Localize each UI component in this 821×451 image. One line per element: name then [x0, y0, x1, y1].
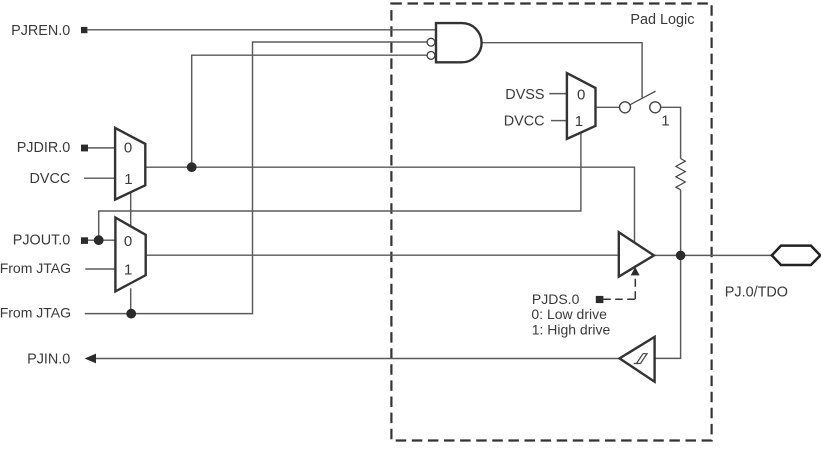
wire mux U2 output to output buffer input — [146, 254, 619, 256]
svg-text:0: 0 — [124, 233, 132, 250]
output buffer U5 — [619, 232, 654, 276]
wire DVCC to mux U1 input 1 — [84, 177, 115, 179]
svg-text:DVCC: DVCC — [504, 113, 545, 129]
AND gate U4 — [436, 23, 482, 62]
PJIN.0 arrowhead — [85, 354, 96, 364]
wire JTAG select node C to mux U2 select — [130, 288, 132, 313]
terminal square PJREN.0 — [81, 27, 87, 33]
node D junction dot (pad net) — [676, 251, 686, 261]
svg-text:1: 1 — [575, 113, 583, 130]
svg-text:Pad Logic: Pad Logic — [630, 12, 694, 28]
hysteresis symbol inside U6 — [634, 354, 648, 364]
wire resistor R1 bottom through pad node D down to Schmitt input — [655, 190, 681, 359]
svg-text:PJIN.0: PJIN.0 — [27, 352, 70, 368]
pad pin PJ.0/TDO hexagon — [772, 246, 821, 265]
svg-text:From JTAG: From JTAG — [0, 260, 71, 276]
svg-text:1: 1 — [124, 262, 132, 279]
wire mux U2 select through to mux U1 select — [130, 193, 132, 226]
wire DVCC to mux U3 input 1 — [551, 120, 567, 122]
wire node A up to AND input C bubble — [192, 55, 428, 167]
inverter bubble on AND input C — [427, 52, 435, 60]
wire mux U3 output to switch contact — [596, 106, 620, 108]
wire PJREN.0 to AND gate input A — [88, 29, 437, 31]
svg-text:1: 1 — [661, 113, 669, 130]
terminal square PJDS.0 — [596, 296, 604, 303]
wire switch to resistor R1 top — [661, 107, 681, 158]
svg-text:PJREN.0: PJREN.0 — [11, 23, 70, 39]
resistor R1 — [676, 159, 685, 190]
mux U2 (PJOUT.0 / From JTAG) — [115, 218, 145, 292]
wire PJOUT.0 net node B up and over to pull mux U3 select — [99, 133, 581, 241]
svg-text:PJOUT.0: PJOUT.0 — [13, 233, 71, 249]
svg-text:From JTAG: From JTAG — [0, 305, 71, 321]
svg-text:0: 0 — [577, 87, 585, 104]
svg-text:0: 0 — [124, 140, 132, 157]
terminal square PJDIR.0 — [81, 145, 88, 152]
Schmitt trigger input buffer U6 — [620, 337, 655, 382]
svg-text:DVCC: DVCC — [30, 171, 71, 187]
svg-text:PJDIR.0: PJDIR.0 — [17, 140, 71, 156]
wire AND gate output to switch lever — [482, 43, 642, 98]
switch S1 lever — [630, 91, 655, 104]
node B junction dot (PJOUT.0) — [94, 235, 104, 245]
wire direction net: mux U1 output through node A to output buffer enable — [145, 167, 634, 243]
wire PJOUT.0 terminal to mux U2 input 0 — [88, 239, 116, 241]
wire From JTAG to mux U2 input 1 — [85, 268, 115, 270]
mux U1 (PJDIR.0 / DVCC) — [115, 128, 145, 200]
Pad Logic dashed boundary box — [391, 4, 711, 441]
svg-text:1: High drive: 1: High drive — [532, 321, 611, 337]
node C junction dot (From JTAG select) — [126, 309, 136, 319]
wire output buffer to pad node D to pad PJ.0/TDO — [654, 254, 772, 256]
svg-text:PJDS.0: PJDS.0 — [532, 291, 580, 307]
wire DVSS to mux U3 input 0 — [549, 93, 567, 95]
wire From JTAG (TDO enable) net: horizontal run, up, to AND input B bubble — [85, 42, 427, 314]
svg-text:1: 1 — [124, 171, 132, 188]
PJDS.0 arrowhead into buffer U5 — [631, 267, 640, 275]
mux U3 (DVSS / DVCC pull select) — [567, 73, 596, 139]
wire PJDIR.0 terminal to mux U1 input 0 — [88, 147, 116, 149]
terminal square PJOUT.0 — [81, 237, 88, 244]
svg-text:PJ.0/TDO: PJ.0/TDO — [725, 285, 788, 301]
wire PJIN.0 from Schmitt output — [95, 358, 620, 360]
svg-text:0: Low drive: 0: Low drive — [531, 306, 607, 322]
svg-text:DVSS: DVSS — [505, 87, 544, 103]
switch S1 contact circle right — [650, 102, 661, 113]
inverter bubble on AND input B — [427, 38, 435, 46]
PJDS.0 drive strength dashed control wire — [603, 298, 635, 300]
switch S1 contact circle left — [620, 102, 631, 113]
node A junction dot (mux U1 output) — [187, 162, 197, 172]
